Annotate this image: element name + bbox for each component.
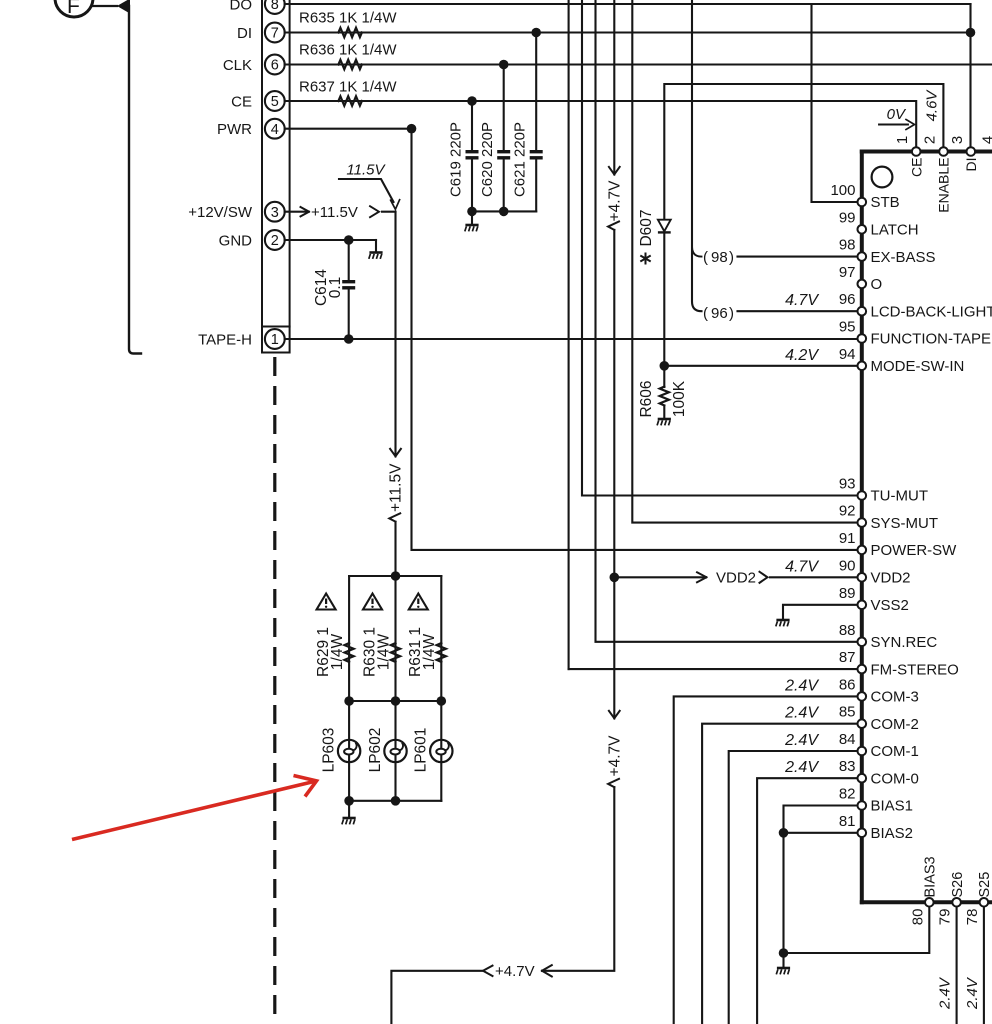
svg-text:S25: S25 <box>977 872 992 898</box>
svg-text:2: 2 <box>271 233 279 249</box>
svg-text:88: 88 <box>839 622 856 639</box>
svg-text:COM-0: COM-0 <box>871 770 919 787</box>
svg-text:CE: CE <box>908 158 924 177</box>
svg-text:4.6V: 4.6V <box>924 89 941 122</box>
svg-text:BIAS2: BIAS2 <box>871 825 914 842</box>
svg-text:VDD2: VDD2 <box>716 570 756 587</box>
svg-text:79: 79 <box>937 909 954 926</box>
svg-text:EX-BASS: EX-BASS <box>871 249 936 266</box>
svg-text:R635 1K 1/4W: R635 1K 1/4W <box>299 9 397 26</box>
svg-text:D607: D607 <box>638 209 655 246</box>
svg-text:R636 1K 1/4W: R636 1K 1/4W <box>299 41 397 58</box>
svg-text:+4.7V: +4.7V <box>607 180 624 222</box>
svg-text:LP602: LP602 <box>367 728 384 773</box>
svg-text:LP603: LP603 <box>321 728 338 773</box>
svg-text:85: 85 <box>839 704 856 721</box>
svg-text:87: 87 <box>839 649 856 666</box>
svg-text:LCD-BACK-LIGHT: LCD-BACK-LIGHT <box>871 303 992 320</box>
svg-text:7: 7 <box>271 26 279 42</box>
svg-text:2.4V: 2.4V <box>964 976 981 1010</box>
svg-text:TU-MUT: TU-MUT <box>871 488 928 505</box>
svg-text:98: 98 <box>711 249 728 266</box>
svg-text:4: 4 <box>271 122 279 138</box>
svg-text:99: 99 <box>839 209 856 226</box>
svg-text:94: 94 <box>839 346 856 363</box>
svg-text:100: 100 <box>830 182 855 199</box>
svg-text:(: ( <box>703 305 708 322</box>
svg-text:PWR: PWR <box>217 121 252 138</box>
svg-text:CLK: CLK <box>223 57 252 74</box>
svg-text:R637 1K 1/4W: R637 1K 1/4W <box>299 78 397 95</box>
svg-text:2.4V: 2.4V <box>937 976 954 1010</box>
svg-text:78: 78 <box>964 909 981 926</box>
svg-text:96: 96 <box>711 305 728 322</box>
svg-text:100K: 100K <box>671 380 688 417</box>
svg-text:96: 96 <box>839 291 856 308</box>
svg-text:1/4W: 1/4W <box>375 634 392 671</box>
svg-text:COM-2: COM-2 <box>871 716 919 733</box>
svg-text:2.4V: 2.4V <box>784 759 819 776</box>
svg-text:F: F <box>67 0 80 18</box>
svg-text:MODE-SW-IN: MODE-SW-IN <box>871 358 965 375</box>
svg-text:95: 95 <box>839 319 856 336</box>
svg-text:FUNCTION-TAPE: FUNCTION-TAPE <box>871 331 992 348</box>
svg-text:93: 93 <box>839 476 856 493</box>
svg-text:VDD2: VDD2 <box>871 570 911 587</box>
svg-text:3: 3 <box>271 205 279 221</box>
svg-text:4.7V: 4.7V <box>785 558 819 575</box>
svg-text:): ) <box>729 305 734 322</box>
svg-text:+12V/SW: +12V/SW <box>188 204 253 221</box>
svg-text:+4.7V: +4.7V <box>495 963 535 980</box>
svg-text:ENABLE: ENABLE <box>936 158 952 213</box>
svg-text:2.4V: 2.4V <box>784 705 819 722</box>
svg-text:3: 3 <box>949 136 966 144</box>
svg-text:TAPE-H: TAPE-H <box>198 331 252 348</box>
svg-text:O: O <box>871 276 883 293</box>
svg-text:DO: DO <box>230 0 253 13</box>
svg-text:GND: GND <box>219 232 253 249</box>
svg-text:0.1: 0.1 <box>327 277 344 299</box>
svg-text:(: ( <box>703 249 708 266</box>
svg-text:R606: R606 <box>638 380 655 417</box>
svg-text:DI: DI <box>237 25 252 42</box>
svg-text:C620 220P: C620 220P <box>479 122 496 197</box>
svg-text:11.5V: 11.5V <box>346 162 386 179</box>
svg-text:90: 90 <box>839 557 856 574</box>
svg-text:+4.7V: +4.7V <box>607 735 624 777</box>
svg-text:0V: 0V <box>887 106 907 123</box>
svg-text:1: 1 <box>894 136 911 144</box>
svg-text:): ) <box>729 249 734 266</box>
svg-text:C619 220P: C619 220P <box>447 122 464 197</box>
svg-text:STB: STB <box>871 194 900 211</box>
svg-text:C621 220P: C621 220P <box>512 122 529 197</box>
svg-text:SYN.REC: SYN.REC <box>871 634 938 651</box>
svg-text:+11.5V: +11.5V <box>388 463 405 512</box>
svg-text:84: 84 <box>839 731 856 748</box>
svg-text:POWER-SW: POWER-SW <box>871 542 958 559</box>
svg-text:91: 91 <box>839 530 856 547</box>
svg-text:DI: DI <box>963 158 979 172</box>
svg-text:2.4V: 2.4V <box>784 677 819 694</box>
svg-text:82: 82 <box>839 786 856 803</box>
svg-text:BIAS3: BIAS3 <box>923 856 939 897</box>
svg-text:LATCH: LATCH <box>871 222 919 239</box>
svg-text:CE: CE <box>231 93 252 110</box>
svg-text:8: 8 <box>271 0 279 13</box>
svg-text:6: 6 <box>271 58 279 74</box>
svg-text:1/4W: 1/4W <box>329 634 346 671</box>
svg-text:4: 4 <box>980 136 992 144</box>
svg-text:4.2V: 4.2V <box>785 347 819 364</box>
svg-text:4.7V: 4.7V <box>785 292 819 309</box>
svg-text:FM-STEREO: FM-STEREO <box>871 661 959 678</box>
svg-text:2.4V: 2.4V <box>784 732 819 749</box>
svg-text:COM-3: COM-3 <box>871 689 919 706</box>
svg-text:1/4W: 1/4W <box>421 634 438 671</box>
svg-text:98: 98 <box>839 237 856 254</box>
svg-text:83: 83 <box>839 758 856 775</box>
svg-text:5: 5 <box>271 94 279 110</box>
svg-text:LP601: LP601 <box>413 728 430 773</box>
svg-text:COM-1: COM-1 <box>871 743 919 760</box>
svg-text:81: 81 <box>839 813 856 830</box>
svg-text:80: 80 <box>909 909 926 926</box>
svg-text:89: 89 <box>839 585 856 602</box>
svg-text:2: 2 <box>922 136 939 144</box>
svg-text:1: 1 <box>271 332 279 348</box>
svg-text:+11.5V: +11.5V <box>311 204 358 221</box>
svg-text:SYS-MUT: SYS-MUT <box>871 515 939 532</box>
svg-text:S26: S26 <box>950 872 966 898</box>
svg-text:97: 97 <box>839 264 856 281</box>
svg-text:BIAS1: BIAS1 <box>871 798 914 815</box>
svg-text:92: 92 <box>839 503 856 520</box>
svg-text:VSS2: VSS2 <box>871 597 909 614</box>
svg-text:86: 86 <box>839 676 856 693</box>
